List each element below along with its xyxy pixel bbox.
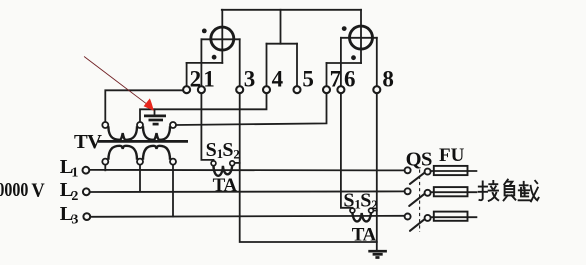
svg-text:2: 2: [71, 189, 78, 204]
svg-text:S: S: [360, 189, 371, 211]
svg-text:2: 2: [233, 146, 240, 161]
svg-text:S: S: [222, 139, 233, 161]
svg-text:S: S: [206, 139, 217, 161]
svg-text:4: 4: [272, 66, 284, 91]
svg-text:1: 1: [203, 66, 215, 91]
svg-text:5: 5: [302, 66, 314, 91]
svg-text:FU: FU: [439, 145, 465, 166]
svg-text:3: 3: [244, 66, 256, 91]
svg-text:2: 2: [371, 197, 378, 212]
svg-text:TA: TA: [352, 224, 377, 245]
svg-text:V: V: [31, 180, 44, 202]
svg-text:TA: TA: [213, 175, 238, 196]
svg-text:QS: QS: [406, 148, 432, 170]
svg-text:2: 2: [190, 66, 202, 91]
svg-text:3: 3: [71, 213, 78, 228]
svg-text:TV: TV: [74, 131, 102, 153]
svg-text:0000: 0000: [0, 178, 28, 200]
svg-text:S: S: [343, 189, 354, 211]
svg-text:7: 7: [330, 66, 342, 91]
svg-text:6: 6: [344, 66, 356, 91]
svg-text:8: 8: [382, 66, 394, 91]
